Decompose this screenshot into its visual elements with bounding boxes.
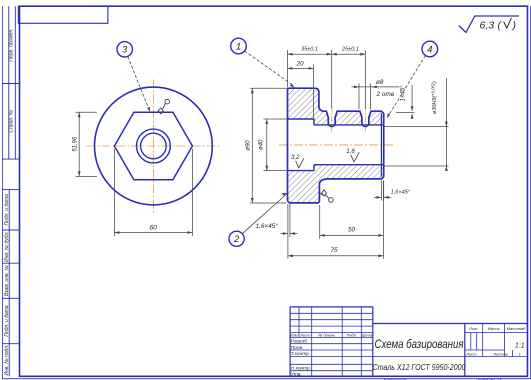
LEFTVIEW-GROUP — [87, 80, 221, 213]
counterbore bottom edge — [288, 165, 314, 171]
svg-text:Масса: Масса — [488, 326, 501, 331]
svg-text:Сталь Х12 ГОСТ 5950-2000: Сталь Х12 ГОСТ 5950-2000 — [373, 362, 466, 372]
svg-text:Лист: Лист — [465, 351, 477, 356]
svg-text:ø8: ø8 — [376, 79, 384, 86]
left table thin lines — [290, 307, 373, 376]
hexagon — [114, 112, 192, 180]
balloon 3 — [117, 42, 132, 57]
right header labels — [465, 326, 526, 356]
svg-text:25±0,1: 25±0,1 — [341, 47, 359, 53]
svg-text:Инв. № подл.: Инв. № подл. — [4, 344, 10, 375]
svg-text:Изм.: Изм. — [290, 333, 299, 338]
svg-text:1: 1 — [236, 41, 241, 52]
svg-text:Пров.: Пров. — [291, 345, 304, 351]
svg-text:Утв.: Утв. — [291, 372, 302, 378]
left margin column group 1 lines — [2, 6, 19, 376]
header row tiny labels — [290, 333, 373, 338]
svg-text:2: 2 — [233, 234, 240, 245]
dim d40 — [259, 119, 287, 171]
svg-text:6,3: 6,3 — [480, 19, 495, 31]
svg-text:4: 4 — [427, 44, 432, 55]
hole 2 centerline — [364, 106, 366, 132]
svg-text:60: 60 — [149, 225, 157, 232]
svg-text:): ) — [511, 20, 517, 32]
svg-text:1: 1 — [519, 351, 521, 356]
svg-text:1,6: 1,6 — [346, 148, 355, 155]
hole 1 centerline — [331, 106, 333, 132]
hatch upper material — [288, 88, 384, 125]
svg-text:Инв. № дубл.: Инв. № дубл. — [4, 231, 10, 262]
roughness mark top-right: radical — [459, 16, 519, 32]
dim 25+-0,1 — [332, 47, 366, 109]
svg-text:1,6×45°: 1,6×45° — [391, 190, 411, 196]
svg-text:20: 20 — [295, 60, 304, 67]
dim 20 — [287, 60, 313, 123]
dim 1,6x45 bottom-left chamfer — [256, 204, 298, 237]
TITLEBLOCK-GROUP — [290, 307, 527, 380]
BALLOONS-GROUP — [117, 38, 438, 246]
dim 1,6x45 right chamfer — [374, 181, 411, 201]
balloon 1 — [231, 38, 247, 54]
dim d8, 2 holes — [352, 79, 400, 110]
leader balloon 2 (solid) — [242, 194, 286, 234]
hole 1 drill bottom arc — [328, 125, 335, 127]
SECTION-GROUP — [279, 88, 394, 203]
right section thin lines — [373, 324, 528, 357]
svg-text:Взам. инв. №: Взам. инв. № — [4, 265, 10, 297]
dim d30H9 — [385, 78, 449, 171]
bore circle inner — [141, 133, 167, 159]
svg-text:Листов: Листов — [492, 351, 508, 356]
dim 50 — [320, 181, 384, 259]
left margin column group 2 lines — [8, 190, 10, 377]
svg-text:Лист: Лист — [299, 333, 311, 338]
svg-text:Справ. №: Справ. № — [9, 109, 15, 132]
dim 75 — [288, 204, 384, 259]
counterbore top edge — [288, 119, 314, 125]
balloon 4 — [422, 41, 438, 57]
section axis centerline — [279, 144, 394, 146]
svg-text:1,6×45°: 1,6×45° — [256, 222, 279, 230]
datum point symbol on flange right face (bottom) — [320, 190, 334, 202]
DIMS-GROUP — [72, 47, 448, 259]
svg-text:50: 50 — [348, 227, 356, 234]
svg-text:Разраб.: Разраб. — [291, 339, 308, 345]
dim d90 — [246, 88, 287, 203]
svg-text:ø30Н9(+0,052): ø30Н9(+0,052) — [431, 81, 439, 114]
dim 35+-0,1 — [287, 47, 331, 108]
svg-text:1:1: 1:1 — [515, 343, 525, 350]
title block main outline — [290, 307, 527, 376]
centerline horizontal — [87, 145, 221, 147]
right end chamfer edge line — [380, 114, 382, 177]
svg-text:Н.контр.: Н.контр. — [291, 366, 311, 372]
svg-text:Масштаб: Масштаб — [507, 326, 526, 331]
hole 2 drill bottom arc — [362, 125, 369, 127]
leader balloon 1 (dashed) — [245, 51, 294, 85]
svg-text:Схема базирования: Схема базирования — [375, 339, 464, 351]
datum point 3 symbol: diamond on hex top edge — [158, 99, 169, 114]
dim 51,96 left view — [72, 112, 97, 176]
svg-text:35±0,1: 35±0,1 — [301, 47, 318, 53]
svg-text:Лит.: Лит. — [468, 326, 478, 331]
bore circle outer — [137, 129, 171, 163]
bore bottom edge — [314, 164, 384, 166]
top-left document box — [18, 6, 108, 23]
dim 1x45 right top chamfer — [396, 85, 415, 119]
svg-text:75: 75 — [330, 247, 338, 254]
svg-text:Дата: Дата — [361, 333, 373, 338]
hatch lower material — [288, 165, 384, 203]
svg-text:Т.контр.: Т.контр. — [291, 351, 310, 357]
svg-text:Подп. и дата: Подп. и дата — [4, 194, 10, 226]
svg-text:51,96: 51,96 — [72, 136, 78, 152]
svg-text:Подп. и дата: Подп. и дата — [4, 305, 10, 337]
dim 60 left view — [114, 149, 192, 236]
svg-text:3,2: 3,2 — [291, 154, 300, 161]
svg-text:Подп.: Подп. — [346, 333, 357, 338]
centerline vertical — [152, 80, 154, 213]
balloon 2 — [229, 231, 244, 246]
leader balloon 4 (dashed) — [388, 56, 426, 117]
leader balloon 3 (dashed) — [128, 57, 150, 111]
flange outer circle (d90) — [94, 87, 212, 205]
svg-text:Перв. примен.: Перв. примен. — [9, 28, 15, 61]
svg-text:3: 3 — [122, 45, 128, 56]
bore top edge — [314, 124, 384, 126]
svg-text:2 отв: 2 отв — [376, 91, 395, 98]
svg-text:№ докум.: № докум. — [318, 333, 336, 338]
signature row labels — [291, 339, 311, 378]
svg-text:ø90: ø90 — [246, 140, 252, 151]
svg-text:(: ( — [498, 20, 503, 32]
svg-text:ø40: ø40 — [259, 139, 265, 150]
part outer profile — [288, 88, 384, 203]
